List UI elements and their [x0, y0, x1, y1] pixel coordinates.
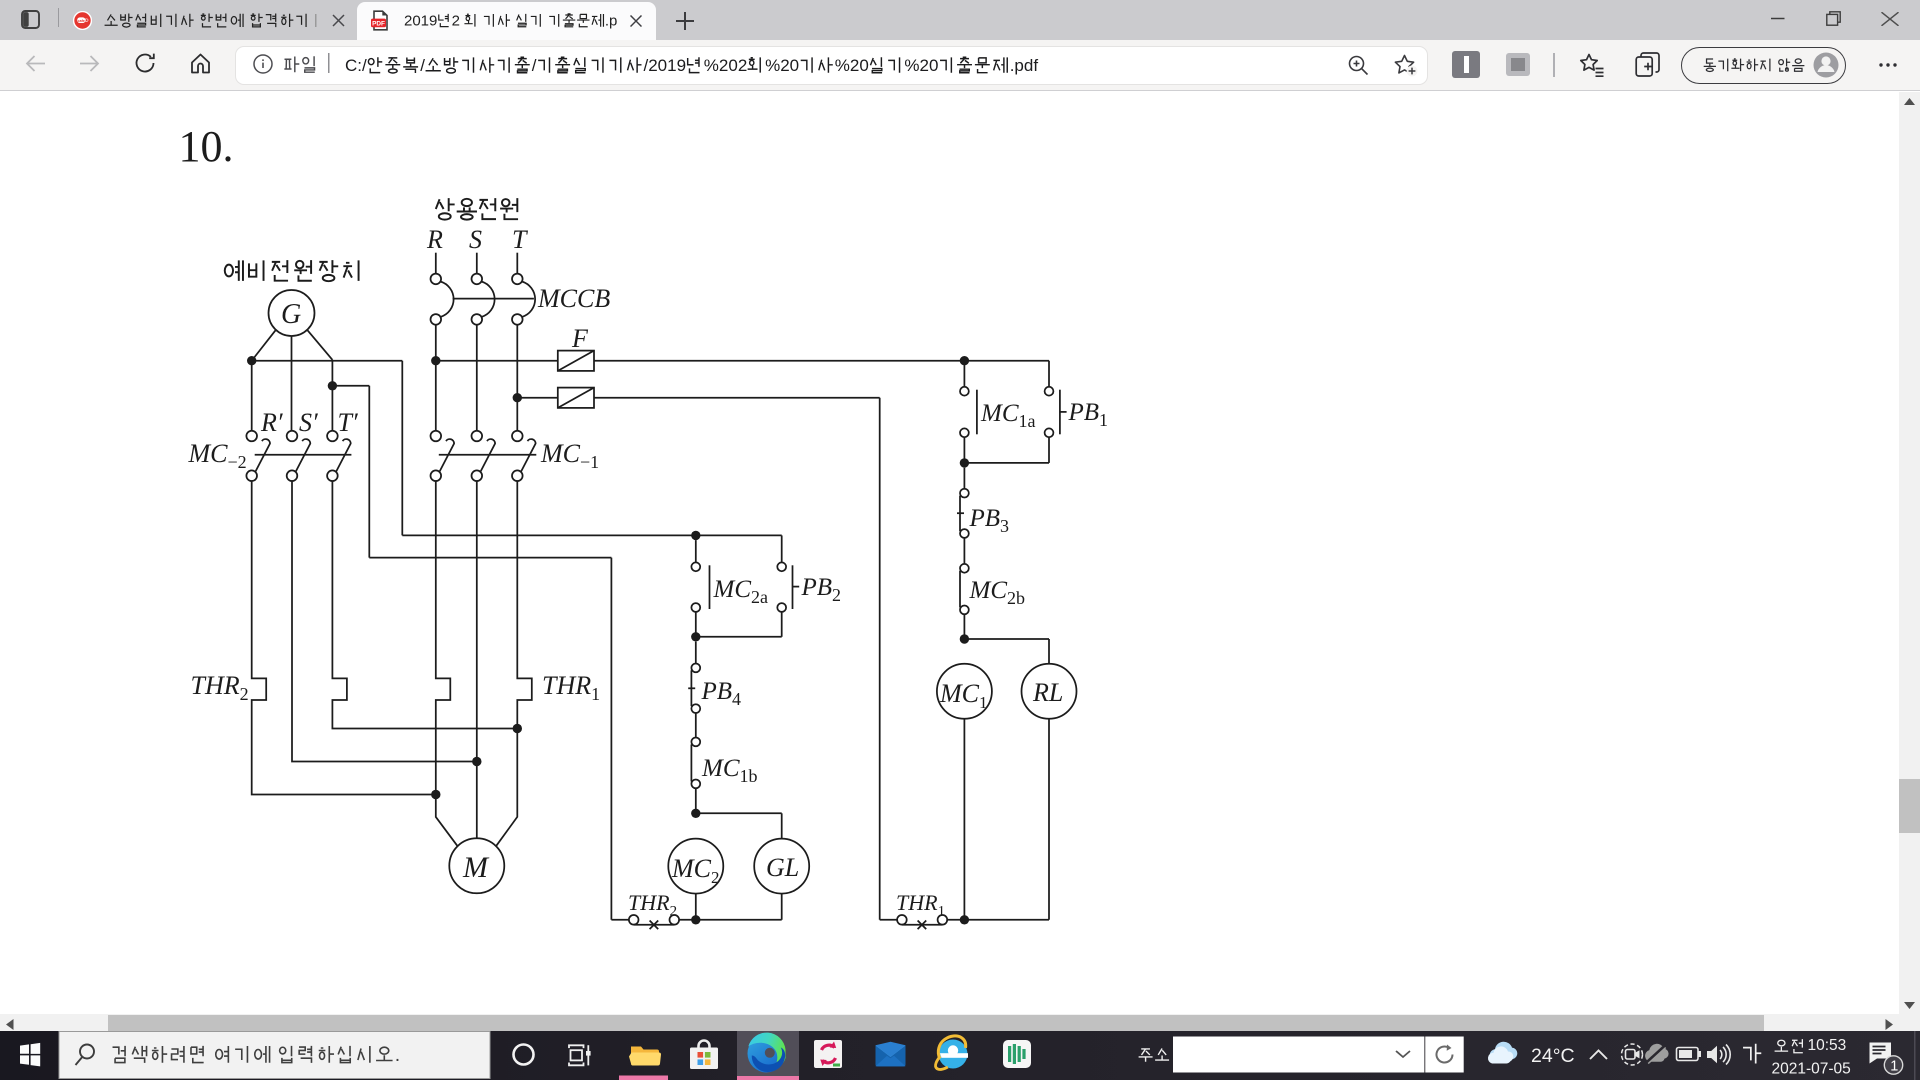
junction node R to motor	[431, 790, 440, 799]
svg-text:MC1: MC1	[939, 679, 988, 712]
svg-text:PB1: PB1	[1068, 399, 1109, 430]
wire riser x402 down	[401, 361, 403, 536]
wire R-prime to MC-2	[251, 361, 253, 431]
svg-text:GL: GL	[766, 853, 799, 882]
svg-text:THR2: THR2	[191, 671, 249, 704]
svg-text:MC−2: MC−2	[188, 439, 247, 472]
wire R MCCB to MC-1	[435, 325, 437, 431]
svg-text:PB3: PB3	[969, 505, 1010, 536]
svg-text:F: F	[571, 324, 589, 353]
MC-1 linkage bar	[439, 454, 537, 456]
junction node MC2a bottom	[691, 632, 700, 641]
svg-text:S′: S′	[299, 408, 318, 437]
MCCB pole S	[472, 274, 483, 285]
svg-text:MC2a: MC2a	[713, 576, 769, 607]
wire MC1a bottom to node	[963, 437, 965, 463]
junction node R-prime	[247, 356, 256, 365]
label: commercial power source (sangyong jeonwon)	[436, 198, 455, 219]
fuse F2	[558, 388, 594, 408]
svg-text:2021-07-05: 2021-07-05	[1772, 1061, 1851, 1078]
junction node above MC1 coil	[960, 634, 969, 643]
wire+heater THR1 pole R down to motor funnel	[436, 481, 458, 846]
svg-text:24°C: 24°C	[1531, 1045, 1575, 1067]
wire control line 2 riser x611	[610, 558, 612, 920]
svg-text:M: M	[462, 851, 490, 884]
generator G	[269, 290, 315, 336]
wire node to PB2 bottom	[696, 636, 782, 638]
pushbutton PB4 (NC)	[691, 664, 700, 673]
contactor MC-1 pole R	[431, 431, 442, 442]
svg-text:MC2b: MC2b	[969, 577, 1026, 608]
wire MC2b to node	[963, 614, 965, 639]
contact MC1b (NC interlock)	[691, 738, 700, 747]
wire RL to bottom rail	[1048, 719, 1050, 920]
svg-text:10.: 10.	[179, 122, 234, 171]
svg-text:S: S	[469, 225, 482, 254]
MCCB pole T	[512, 274, 523, 285]
wire T-prime to MC-2	[331, 360, 333, 431]
svg-text:THR1: THR1	[896, 890, 945, 919]
wire MC2 coil to bottom rail	[695, 894, 697, 920]
wire+heater THR2 pole T-prime and run to node on T line	[332, 481, 517, 729]
wire S-prime run to node on S line	[292, 481, 477, 762]
wire PB4 to MC1b	[695, 713, 697, 738]
junction node R-fuse	[431, 356, 440, 365]
contactor MC-1 pole T	[512, 431, 523, 442]
svg-text:T′: T′	[338, 408, 358, 437]
wire S pole down to motor	[476, 481, 478, 838]
wire control line 2 riser x879	[879, 398, 881, 920]
pushbutton PB2 (NO)	[777, 562, 786, 571]
junction node T to motor	[513, 724, 522, 733]
wire S phase to MCCB	[476, 253, 478, 274]
svg-text:.p: .p	[605, 12, 618, 29]
wire R phase to MCCB	[435, 253, 437, 274]
wire+heater THR1 pole T down to motor funnel	[496, 481, 532, 846]
contactor MC-1 pole S	[472, 431, 483, 442]
motor M	[449, 838, 504, 893]
wire node T-prime to riser	[332, 385, 369, 387]
wire S MCCB to MC-1	[476, 325, 478, 431]
contact MC1a (NO auxiliary)	[960, 387, 969, 396]
wire THR1 contact to node	[947, 919, 964, 921]
wire T MCCB to MC-1	[516, 325, 518, 431]
wire THR2 contact to node	[679, 919, 696, 921]
wire riser x369 down	[368, 386, 370, 558]
svg-text:MC−1: MC−1	[540, 439, 599, 472]
coil MC1	[937, 664, 992, 719]
svg-text:THR1: THR1	[542, 671, 600, 704]
fuse F1	[558, 351, 594, 371]
wire node to PB4	[695, 642, 697, 664]
wire control line 2 to THR2 contact	[611, 919, 629, 921]
svg-text:1: 1	[1890, 1059, 1898, 1075]
MC-2 linkage bar	[255, 454, 352, 456]
lamp RL	[1022, 664, 1077, 719]
wire MC2a bottom to node	[695, 612, 697, 637]
svg-text:T: T	[512, 225, 528, 254]
wire T node to fuse F2	[517, 397, 558, 399]
wire GL to bottom rail	[781, 894, 783, 920]
svg-text:R′: R′	[260, 408, 283, 437]
lamp GL	[754, 839, 809, 894]
MCCB pole R	[431, 274, 442, 285]
svg-text:G: G	[281, 299, 301, 330]
wire control line 1 to PB1	[1048, 361, 1050, 387]
wire fuse F2 to control line 2	[594, 397, 880, 399]
contact THR2 (NC trip)	[629, 915, 639, 925]
wire to PB2 top	[781, 535, 783, 562]
junction node T-fuse	[513, 393, 522, 402]
wire to THR1 contact	[880, 919, 897, 921]
pushbutton PB1 (NO)	[1045, 387, 1054, 396]
svg-text:2: 2	[452, 12, 460, 29]
wire node to MC1a	[963, 361, 965, 387]
wire node R-prime to riser	[252, 360, 403, 362]
wire node to GL branch	[696, 812, 782, 814]
junction node S to motor	[472, 757, 481, 766]
svg-text:2019: 2019	[404, 12, 437, 29]
wire MC1b to node	[695, 788, 697, 813]
junction node T-prime	[328, 381, 337, 390]
wire bottom rail MC1-RL	[964, 919, 1049, 921]
wire G phase S-prime	[291, 336, 293, 431]
wire PB3 to MC2b	[963, 538, 965, 564]
wire G to node R-prime	[252, 329, 277, 360]
wire node to PB1 bottom	[964, 462, 1049, 464]
wire control line 2 horizontal	[369, 557, 611, 559]
svg-text:PB4: PB4	[701, 678, 742, 709]
junction node bottom MC1	[960, 915, 969, 924]
wire fuse F1 to control line 1	[594, 360, 1049, 362]
wire node to RL branch	[964, 638, 1049, 640]
svg-text:MC2: MC2	[671, 854, 720, 887]
svg-text:MCCB: MCCB	[537, 284, 610, 313]
junction node bottom MC2	[691, 915, 700, 924]
contact THR1 (NC trip)	[897, 915, 907, 925]
junction node MC2a top	[691, 531, 700, 540]
wire bottom rail MC2-GL	[696, 919, 782, 921]
svg-text:MC1b: MC1b	[701, 755, 758, 786]
wire T phase to MCCB	[516, 253, 518, 274]
wire R node to fuse F1	[436, 360, 558, 362]
coil MC2	[668, 839, 723, 894]
svg-text:10:53: 10:53	[1808, 1037, 1847, 1054]
contact MC2a (NO auxiliary)	[691, 562, 700, 571]
svg-text:RL: RL	[1032, 678, 1063, 707]
svg-text:PB2: PB2	[801, 574, 842, 605]
contactor MC-2 pole R-prime	[246, 431, 257, 442]
wire node to PB3	[963, 468, 965, 489]
contact MC2b (NC interlock)	[960, 564, 969, 573]
label: standby power unit (yebi jeonwon jangchi)	[225, 260, 243, 281]
contactor MC-2 pole S-prime	[287, 431, 298, 442]
junction node control line 1 at MC1a	[960, 356, 969, 365]
svg-text:THR2: THR2	[628, 890, 677, 919]
wire control line 1 top rail	[402, 534, 781, 536]
junction node above MC2 coil	[691, 809, 700, 818]
wire node to MC2a	[695, 540, 697, 562]
svg-text:R: R	[426, 225, 443, 254]
wire+heater THR2 pole R-prime and run to node on R line	[252, 481, 436, 795]
contactor MC-2 pole T-prime	[327, 431, 338, 442]
wire MC1 coil to bottom rail	[963, 719, 965, 920]
MCCB trip linkage bar	[453, 298, 534, 300]
svg-text:MC1a: MC1a	[980, 400, 1036, 431]
pushbutton PB3 (NC)	[960, 489, 969, 498]
junction node MC1a bottom	[960, 458, 969, 467]
svg-text:.: .	[395, 1044, 400, 1066]
wire G to T-prime	[307, 329, 333, 360]
